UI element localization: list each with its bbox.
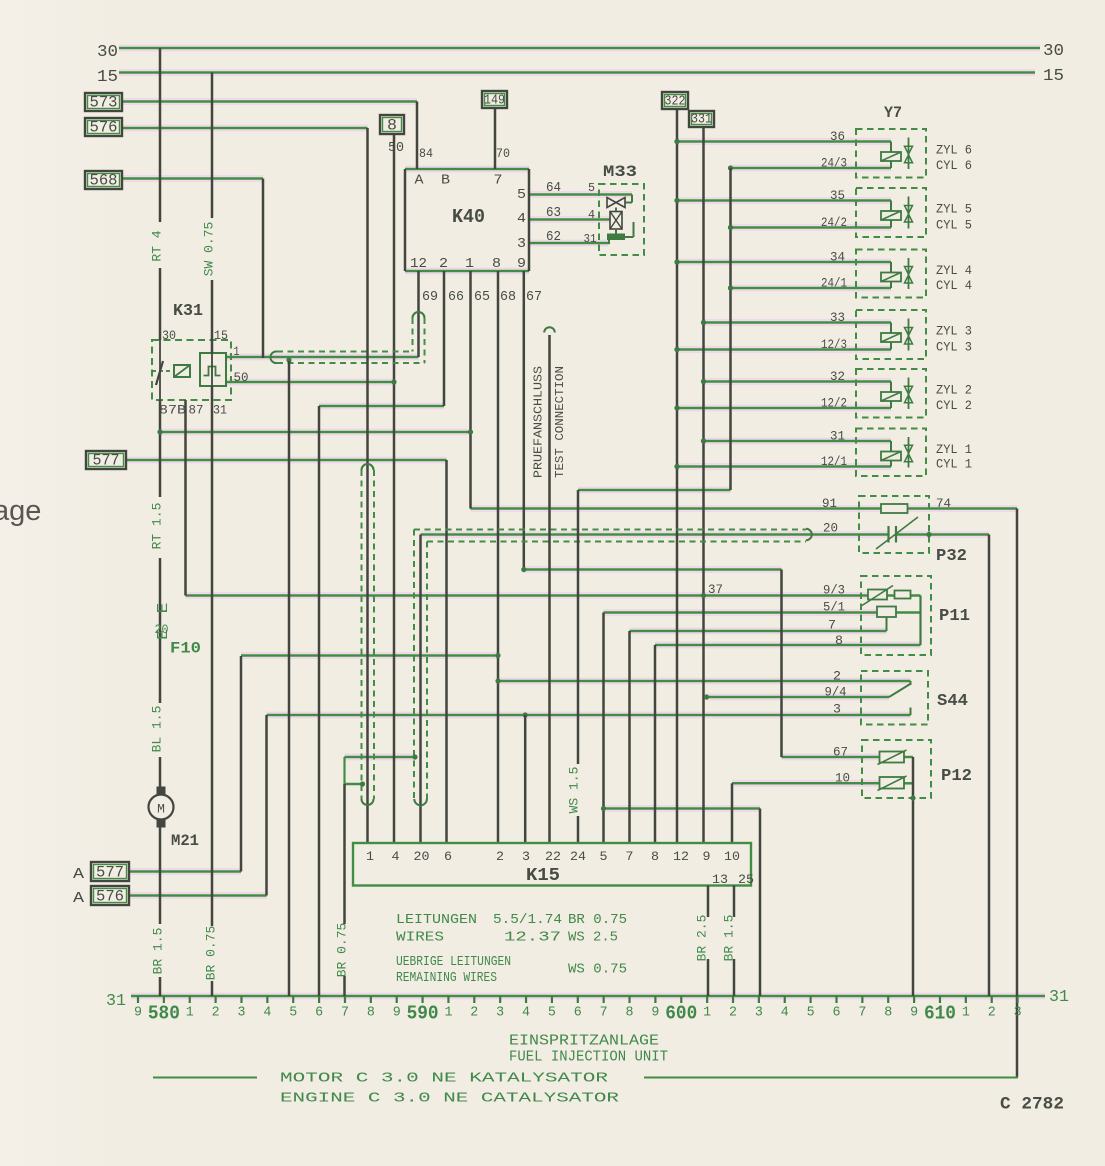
svg-text:5: 5 — [600, 849, 608, 864]
svg-text:BR 2.5: BR 2.5 — [695, 915, 710, 962]
svg-text:WS 1.5: WS 1.5 — [567, 767, 582, 814]
svg-text:9: 9 — [393, 1006, 401, 1021]
svg-text:CYL 6: CYL 6 — [936, 158, 972, 173]
svg-text:610: 610 — [924, 1003, 956, 1025]
svg-text:149: 149 — [484, 94, 505, 109]
svg-text:30: 30 — [97, 43, 118, 62]
svg-text:576: 576 — [96, 888, 124, 906]
svg-text:15: 15 — [214, 328, 228, 343]
svg-text:7: 7 — [858, 1006, 866, 1021]
svg-text:UEBRIGE LEITUNGEN: UEBRIGE LEITUNGEN — [396, 954, 511, 970]
svg-text:Y7: Y7 — [884, 104, 902, 122]
svg-text:9: 9 — [651, 1006, 659, 1021]
svg-text:A: A — [73, 866, 84, 883]
svg-text:20: 20 — [823, 521, 838, 536]
svg-text:5: 5 — [588, 181, 595, 195]
svg-text:K15: K15 — [526, 866, 560, 886]
svg-text:8: 8 — [835, 633, 843, 648]
svg-text:1: 1 — [444, 1006, 452, 1021]
svg-text:8: 8 — [884, 1006, 892, 1021]
svg-text:10: 10 — [835, 771, 850, 786]
svg-text:1: 1 — [366, 849, 374, 864]
svg-text:FUEL INJECTION UNIT: FUEL INJECTION UNIT — [509, 1050, 668, 1066]
svg-text:5: 5 — [807, 1006, 815, 1021]
svg-text:7: 7 — [626, 849, 634, 864]
svg-text:7: 7 — [494, 173, 503, 189]
svg-text:ZYL 2: ZYL 2 — [936, 383, 972, 398]
svg-text:M21: M21 — [171, 832, 199, 850]
svg-text:15: 15 — [1043, 67, 1064, 86]
svg-text:K31: K31 — [173, 302, 203, 321]
svg-text:1: 1 — [465, 256, 474, 272]
svg-text:C 2782: C 2782 — [1000, 1095, 1064, 1115]
svg-text:67: 67 — [833, 745, 848, 760]
svg-text:2: 2 — [988, 1006, 996, 1021]
svg-text:ENGINE C 3.0 NE CATALYSATOR: ENGINE C 3.0 NE CATALYSATOR — [280, 1092, 619, 1107]
svg-text:PRUEFANSCHLUSS: PRUEFANSCHLUSS — [532, 366, 546, 478]
svg-text:31: 31 — [830, 429, 845, 444]
svg-text:EINSPRITZANLAGE: EINSPRITZANLAGE — [509, 1034, 659, 1050]
svg-text:31: 31 — [213, 403, 227, 418]
svg-text:322: 322 — [665, 95, 686, 110]
svg-text:8: 8 — [367, 1006, 375, 1021]
svg-text:1: 1 — [186, 1006, 194, 1021]
svg-text:8: 8 — [492, 256, 501, 272]
svg-text:5.5/1.74: 5.5/1.74 — [493, 912, 562, 928]
svg-text:M33: M33 — [603, 163, 637, 181]
svg-text:age: age — [0, 495, 41, 527]
svg-text:P11: P11 — [939, 607, 970, 626]
svg-text:1: 1 — [703, 1006, 711, 1021]
svg-text:A: A — [415, 173, 425, 189]
svg-text:CYL 2: CYL 2 — [936, 398, 972, 413]
svg-text:ZYL 6: ZYL 6 — [936, 143, 972, 158]
svg-text:6: 6 — [444, 849, 452, 864]
svg-text:MOTOR C 3.0 NE KATALYSATOR: MOTOR C 3.0 NE KATALYSATOR — [280, 1072, 608, 1087]
svg-text:ZYL 5: ZYL 5 — [936, 202, 972, 217]
svg-text:6: 6 — [832, 1006, 840, 1021]
svg-text:F10: F10 — [170, 640, 201, 658]
svg-text:580: 580 — [148, 1003, 180, 1025]
svg-text:577: 577 — [93, 452, 120, 470]
svg-text:4: 4 — [522, 1006, 530, 1021]
svg-text:8: 8 — [626, 1006, 634, 1021]
svg-text:66: 66 — [448, 289, 464, 305]
svg-text:B: B — [441, 173, 450, 189]
svg-text:1: 1 — [234, 344, 240, 359]
svg-text:62: 62 — [546, 229, 561, 245]
svg-text:12/1: 12/1 — [821, 454, 847, 469]
svg-text:SW 0.75: SW 0.75 — [202, 222, 217, 277]
svg-text:4: 4 — [781, 1006, 789, 1021]
svg-text:20: 20 — [414, 849, 430, 864]
svg-text:8: 8 — [651, 849, 659, 864]
svg-text:1: 1 — [962, 1006, 970, 1021]
svg-text:13: 13 — [712, 872, 728, 887]
svg-text:331: 331 — [691, 113, 712, 128]
svg-text:ZYL 1: ZYL 1 — [936, 442, 972, 457]
svg-text:M: M — [157, 802, 165, 817]
svg-text:15: 15 — [97, 68, 118, 87]
svg-text:4: 4 — [263, 1006, 271, 1021]
svg-text:5: 5 — [517, 187, 526, 203]
svg-text:568: 568 — [90, 172, 118, 190]
svg-text:2: 2 — [729, 1006, 737, 1021]
svg-text:24/2: 24/2 — [821, 215, 847, 230]
svg-text:34: 34 — [830, 250, 845, 265]
svg-text:3: 3 — [1014, 1006, 1022, 1021]
svg-text:9: 9 — [517, 256, 526, 272]
svg-text:2: 2 — [496, 849, 504, 864]
svg-text:91: 91 — [822, 496, 837, 511]
svg-text:BR 0.75: BR 0.75 — [568, 912, 627, 928]
svg-text:REMAINING WIRES: REMAINING WIRES — [396, 970, 497, 986]
svg-text:8: 8 — [387, 117, 397, 135]
svg-text:6: 6 — [574, 1006, 582, 1021]
svg-text:84: 84 — [419, 146, 433, 161]
svg-text:12/2: 12/2 — [821, 396, 847, 411]
svg-text:5/1: 5/1 — [823, 600, 845, 615]
svg-text:BL 1.5: BL 1.5 — [150, 706, 165, 753]
svg-text:9/3: 9/3 — [823, 583, 845, 598]
svg-text:TEST CONNECTION: TEST CONNECTION — [553, 366, 567, 478]
svg-text:65: 65 — [474, 289, 490, 305]
svg-text:10: 10 — [724, 849, 740, 864]
svg-text:A: A — [73, 890, 84, 907]
svg-text:31: 31 — [106, 991, 126, 1010]
svg-text:3: 3 — [833, 702, 841, 717]
svg-text:12: 12 — [673, 849, 689, 864]
svg-text:2: 2 — [439, 256, 448, 272]
svg-text:CYL 1: CYL 1 — [936, 457, 972, 472]
svg-text:CYL 4: CYL 4 — [936, 278, 972, 293]
svg-text:CYL 3: CYL 3 — [936, 340, 972, 355]
svg-text:BR 0.75: BR 0.75 — [204, 926, 219, 981]
svg-text:24: 24 — [570, 849, 586, 864]
svg-text:25: 25 — [738, 872, 754, 887]
svg-text:50: 50 — [234, 370, 249, 385]
svg-text:9: 9 — [910, 1006, 918, 1021]
svg-text:P32: P32 — [936, 547, 967, 566]
svg-text:87: 87 — [189, 403, 204, 418]
svg-text:2: 2 — [212, 1006, 220, 1021]
svg-text:RT 4: RT 4 — [150, 230, 165, 261]
svg-text:4: 4 — [392, 849, 400, 864]
svg-text:P12: P12 — [941, 767, 972, 786]
svg-text:70: 70 — [496, 146, 510, 161]
svg-text:4: 4 — [588, 208, 595, 222]
svg-text:9: 9 — [703, 849, 711, 864]
svg-text:RT 1.5: RT 1.5 — [150, 503, 165, 550]
svg-text:E: E — [155, 629, 172, 640]
svg-text:590: 590 — [407, 1003, 439, 1025]
svg-text:CYL 5: CYL 5 — [936, 218, 972, 233]
svg-text:LEITUNGEN: LEITUNGEN — [396, 912, 477, 928]
svg-text:ZYL 3: ZYL 3 — [936, 324, 972, 339]
svg-text:6: 6 — [315, 1006, 323, 1021]
svg-text:3: 3 — [496, 1006, 504, 1021]
svg-text:37: 37 — [708, 582, 723, 597]
svg-text:36: 36 — [830, 129, 845, 144]
svg-text:BR 1.5: BR 1.5 — [151, 928, 166, 975]
svg-text:3: 3 — [522, 849, 530, 864]
svg-text:ZYL 4: ZYL 4 — [936, 263, 972, 278]
svg-text:7: 7 — [341, 1006, 349, 1021]
svg-text:30: 30 — [1043, 42, 1064, 61]
svg-text:50: 50 — [388, 140, 404, 156]
svg-text:22: 22 — [545, 849, 561, 864]
svg-text:32: 32 — [830, 369, 845, 384]
svg-text:3: 3 — [755, 1006, 763, 1021]
svg-text:35: 35 — [830, 188, 845, 203]
svg-text:2: 2 — [833, 669, 841, 684]
svg-text:7: 7 — [828, 618, 836, 633]
svg-text:31: 31 — [1049, 987, 1069, 1006]
svg-text:68: 68 — [500, 289, 516, 305]
svg-text:BR 1.5: BR 1.5 — [722, 915, 737, 962]
svg-text:12.37: 12.37 — [504, 930, 561, 946]
svg-text:WIRES: WIRES — [396, 930, 444, 946]
svg-text:3: 3 — [237, 1006, 245, 1021]
svg-text:2: 2 — [470, 1006, 478, 1021]
svg-text:S44: S44 — [937, 692, 968, 711]
svg-text:573: 573 — [90, 94, 118, 112]
svg-text:74: 74 — [936, 496, 951, 511]
svg-text:3: 3 — [517, 236, 526, 252]
svg-text:WS 0.75: WS 0.75 — [568, 962, 627, 978]
svg-text:69: 69 — [422, 289, 438, 305]
svg-text:9: 9 — [134, 1006, 142, 1021]
svg-text:5: 5 — [548, 1006, 556, 1021]
svg-text:63: 63 — [546, 205, 561, 221]
svg-text:576: 576 — [90, 119, 118, 137]
svg-text:24/3: 24/3 — [821, 156, 847, 171]
svg-text:577: 577 — [96, 864, 124, 882]
svg-text:12: 12 — [410, 256, 427, 272]
svg-text:WS 2.5: WS 2.5 — [568, 930, 618, 946]
svg-text:64: 64 — [546, 180, 561, 196]
svg-text:K40: K40 — [452, 206, 485, 228]
svg-text:600: 600 — [665, 1003, 697, 1025]
svg-text:87B: 87B — [159, 403, 186, 418]
svg-text:24/1: 24/1 — [821, 276, 847, 291]
svg-text:31: 31 — [584, 232, 597, 246]
svg-text:7: 7 — [600, 1006, 608, 1021]
svg-text:E: E — [155, 603, 172, 614]
svg-text:12/3: 12/3 — [821, 337, 847, 352]
svg-text:33: 33 — [830, 310, 845, 325]
svg-text:30: 30 — [162, 328, 176, 343]
svg-text:9/4: 9/4 — [825, 685, 847, 700]
svg-text:BR 0.75: BR 0.75 — [335, 923, 350, 978]
svg-text:5: 5 — [289, 1006, 297, 1021]
svg-text:4: 4 — [517, 211, 526, 227]
svg-text:67: 67 — [526, 289, 542, 305]
